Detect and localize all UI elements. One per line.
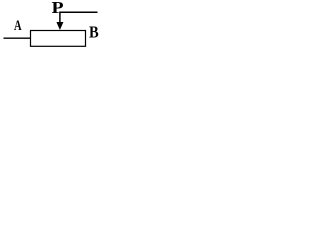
wiper arrowhead — [56, 22, 63, 30]
svg-text:A: A — [14, 16, 22, 33]
wire terminal A (left lead) — [4, 37, 31, 39]
svg-text:P: P — [52, 0, 64, 17]
wire wiper lead (horizontal, free end right) — [60, 12, 98, 22]
potentiometer body (resistor box) — [31, 31, 86, 47]
svg-text:B: B — [89, 24, 99, 42]
